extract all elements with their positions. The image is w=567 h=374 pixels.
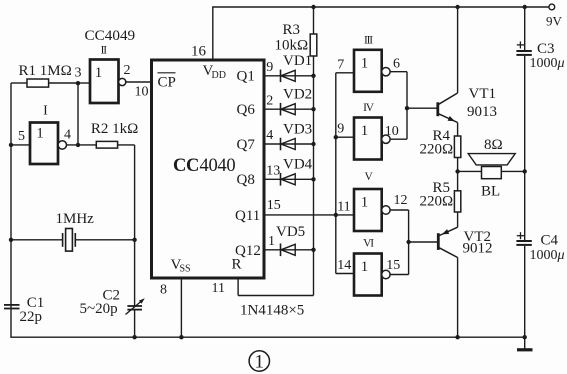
node gate IV input junction bbox=[334, 135, 338, 139]
svg-text:CC: CC bbox=[173, 156, 199, 176]
inverter gate II bbox=[90, 60, 119, 104]
svg-text:2: 2 bbox=[124, 63, 131, 78]
wire R3 top bbox=[313, 7, 315, 34]
svg-text:BL: BL bbox=[481, 184, 500, 200]
wire right rail mid bbox=[524, 56, 526, 240]
svg-text:Q6: Q6 bbox=[237, 102, 256, 118]
svg-text:4040: 4040 bbox=[200, 156, 236, 176]
capacitor C1 top plate bbox=[4, 304, 20, 306]
crystal Y1 body bbox=[66, 229, 73, 252]
svg-text:11: 11 bbox=[337, 199, 350, 214]
wire diode bus bbox=[313, 56, 315, 296]
svg-text:R3: R3 bbox=[283, 22, 301, 38]
inverter gate VI bbox=[354, 254, 382, 296]
svg-text:11: 11 bbox=[212, 281, 225, 296]
svg-text:4: 4 bbox=[64, 128, 71, 143]
wire VSS pin 8 bbox=[180, 278, 182, 337]
svg-text:1N4148×5: 1N4148×5 bbox=[240, 303, 304, 319]
wire R1 right to node 3 bbox=[49, 82, 78, 84]
node 4 bbox=[76, 143, 80, 147]
node VD3 bus junction bbox=[311, 142, 315, 146]
diode VD3 cathode bar bbox=[280, 138, 282, 151]
svg-text:VI: VI bbox=[363, 237, 374, 249]
wire Q12 output row bbox=[264, 249, 314, 251]
wire Q6 output row bbox=[264, 108, 314, 110]
svg-text:5: 5 bbox=[18, 129, 25, 144]
diode VD2 triangle bbox=[281, 104, 295, 115]
node 3 bbox=[76, 81, 80, 85]
wire gate VI output bbox=[390, 274, 409, 276]
wire VT1 base bbox=[407, 107, 438, 109]
diode VD4 triangle bbox=[281, 174, 295, 185]
svg-text:12: 12 bbox=[394, 193, 408, 208]
wire R2 right bbox=[118, 144, 135, 146]
inverter gate III bbox=[354, 50, 382, 92]
svg-text:VD5: VD5 bbox=[276, 224, 305, 240]
resistor R2 bbox=[96, 141, 117, 148]
svg-text:9012: 9012 bbox=[463, 241, 493, 257]
node right rail bottom bbox=[523, 335, 527, 339]
wire VT2 base bbox=[409, 241, 439, 243]
node R4 R5 speaker junction bbox=[455, 169, 459, 173]
wire right rail bottom bbox=[524, 246, 526, 337]
wire gate I output to R2 bbox=[67, 144, 97, 146]
svg-text:9V: 9V bbox=[546, 14, 563, 29]
svg-text:Q11: Q11 bbox=[235, 208, 260, 224]
svg-text:4: 4 bbox=[266, 128, 273, 143]
node gate I input on left rail bbox=[9, 143, 13, 147]
svg-text:5~20p: 5~20p bbox=[80, 301, 118, 317]
node junction top rail / C3 bbox=[523, 5, 527, 9]
transistor VT2 collector bbox=[438, 247, 457, 257]
svg-text:Q8: Q8 bbox=[237, 172, 255, 188]
capacitor C4 top plate bbox=[516, 240, 531, 242]
wire gate IV output bbox=[390, 138, 407, 140]
wire left rail bbox=[10, 83, 12, 337]
svg-text:C3: C3 bbox=[537, 41, 555, 57]
wire Q7 output row bbox=[264, 143, 314, 145]
node junction top rail / R3 bus bbox=[311, 5, 315, 9]
wire ground stub bbox=[524, 337, 526, 350]
svg-text:Q12: Q12 bbox=[235, 243, 261, 259]
capacitor C3 top plate bbox=[516, 50, 531, 52]
bubble gate III output bbox=[382, 68, 390, 76]
resistor R1 bbox=[27, 79, 49, 87]
svg-text:9013: 9013 bbox=[467, 104, 497, 120]
svg-text:VD4: VD4 bbox=[283, 157, 313, 173]
node Q11 gate bus junction bbox=[334, 213, 338, 217]
bubble gate IV output bbox=[382, 135, 390, 143]
wire gate I input bbox=[11, 144, 30, 146]
wire gate III input bbox=[336, 72, 354, 74]
svg-text:1: 1 bbox=[255, 352, 265, 373]
wire Q11 output row bbox=[264, 214, 354, 216]
svg-text:1: 1 bbox=[268, 234, 275, 249]
svg-text:16: 16 bbox=[191, 44, 207, 60]
resistor R5 bbox=[454, 191, 460, 212]
svg-text:1: 1 bbox=[36, 125, 44, 141]
capacitor C2 arrow bbox=[126, 300, 144, 315]
svg-text:1: 1 bbox=[361, 195, 369, 211]
svg-text:Q1: Q1 bbox=[237, 69, 255, 85]
wire R4 bottom bbox=[457, 158, 459, 172]
node gates III-IV output junction bbox=[405, 106, 409, 110]
bubble gate V output bbox=[382, 206, 390, 214]
resistor R4 bbox=[454, 136, 460, 158]
wire gate IV input bbox=[336, 136, 354, 138]
diode VD5 triangle bbox=[281, 244, 295, 255]
svg-text:R1 1MΩ: R1 1MΩ bbox=[19, 63, 72, 79]
node gates V-VI output junction bbox=[406, 240, 410, 244]
wire R5 top bbox=[457, 171, 459, 190]
node C2 bottom rail bbox=[132, 335, 136, 339]
svg-text:DD: DD bbox=[212, 70, 226, 81]
svg-text:7: 7 bbox=[337, 57, 344, 72]
node VSS rail bbox=[179, 335, 183, 339]
bubble gate VI output bbox=[382, 270, 390, 278]
svg-text:μ: μ bbox=[557, 56, 565, 71]
wire R5 bottom bbox=[457, 212, 459, 227]
node VD5 bus junction bbox=[311, 248, 315, 252]
svg-text:220Ω: 220Ω bbox=[420, 142, 454, 158]
wire R1 left bbox=[11, 82, 27, 84]
IC U1 CC4040 body bbox=[152, 60, 265, 278]
wire VT1 collector to rail bbox=[457, 7, 459, 93]
node speaker right rail bbox=[523, 169, 527, 173]
svg-text:VT1: VT1 bbox=[469, 86, 497, 102]
capacitor C1 bottom plate bbox=[4, 308, 20, 310]
wire pin16 vertical from VDD rail to IC bbox=[212, 6, 214, 60]
transistor VT1 emitter bbox=[438, 113, 458, 122]
figure number 1 circle bbox=[249, 351, 269, 371]
node VD1 bus junction bbox=[311, 74, 315, 78]
node VD2 bus junction bbox=[311, 107, 315, 111]
diode VD2 cathode bar bbox=[280, 103, 282, 116]
wire gate III output bbox=[390, 71, 407, 73]
svg-text:3: 3 bbox=[75, 66, 82, 81]
wire gate II output to CP bbox=[126, 81, 152, 83]
wire gate V output bbox=[390, 209, 409, 211]
wire C2 bottom bbox=[134, 310, 136, 338]
speaker BL driver bbox=[482, 167, 502, 179]
node VD4 bus junction bbox=[311, 177, 315, 181]
svg-text:VD2: VD2 bbox=[283, 87, 312, 103]
wire bottom ground rail bbox=[10, 336, 524, 338]
transistor VT2 emitter bbox=[438, 227, 457, 236]
svg-text:VD1: VD1 bbox=[283, 53, 312, 69]
wire R pin down bbox=[237, 278, 239, 296]
capacitor C2 top plate bbox=[127, 305, 142, 307]
capacitor C2 bottom plate bbox=[127, 309, 142, 311]
diode VD5 cathode bar bbox=[280, 244, 282, 257]
svg-text:1: 1 bbox=[361, 259, 369, 275]
svg-text:CP: CP bbox=[158, 74, 176, 90]
bubble gate II output bbox=[119, 78, 126, 85]
transistor VT1 collector bbox=[438, 93, 458, 105]
svg-text:III: III bbox=[364, 35, 373, 47]
wire VT2 collector to rail bbox=[457, 258, 459, 338]
svg-text:6: 6 bbox=[393, 56, 400, 71]
wire right rail top bbox=[524, 7, 526, 50]
svg-text:1MHz: 1MHz bbox=[56, 211, 95, 227]
bubble gate I output bbox=[58, 141, 66, 149]
svg-text:1000: 1000 bbox=[530, 248, 558, 263]
svg-text:1: 1 bbox=[361, 55, 369, 71]
ground bbox=[517, 348, 533, 351]
svg-text:15: 15 bbox=[267, 198, 281, 213]
svg-text:R2 1kΩ: R2 1kΩ bbox=[91, 121, 138, 137]
label C4 plus bbox=[517, 235, 524, 237]
svg-text:8Ω: 8Ω bbox=[484, 137, 503, 153]
svg-text:μ: μ bbox=[557, 248, 565, 263]
transistor VT1 base bar bbox=[436, 102, 439, 116]
terminal 9V bbox=[549, 4, 555, 10]
node crystal left rail bbox=[9, 238, 13, 242]
capacitor C3 bottom plate bbox=[516, 54, 531, 56]
svg-text:1: 1 bbox=[361, 123, 369, 139]
svg-text:CC4049: CC4049 bbox=[85, 27, 136, 44]
diode VD4 cathode bar bbox=[280, 173, 282, 186]
svg-text:I: I bbox=[43, 104, 48, 119]
node junction top rail / VT1 collector bbox=[455, 5, 459, 9]
svg-text:VD3: VD3 bbox=[283, 121, 312, 137]
svg-text:C4: C4 bbox=[541, 232, 559, 248]
svg-text:9: 9 bbox=[337, 122, 344, 137]
wire Q8 output row bbox=[264, 178, 314, 180]
svg-text:220Ω: 220Ω bbox=[420, 194, 454, 210]
svg-text:10: 10 bbox=[385, 124, 399, 139]
diode VD1 cathode bar bbox=[280, 70, 282, 83]
inverter gate IV bbox=[354, 118, 382, 160]
svg-text:2: 2 bbox=[266, 93, 273, 108]
transistor VT2 base bar bbox=[437, 233, 440, 250]
wire node3 to node4 vertical bbox=[77, 83, 79, 145]
svg-text:1: 1 bbox=[95, 65, 103, 81]
wire gate II input bbox=[78, 82, 90, 84]
wire gate input bus bbox=[335, 73, 337, 274]
svg-text:22p: 22p bbox=[20, 309, 43, 325]
wire crystal right bbox=[75, 239, 134, 241]
wire VT1 emitter to R4 bbox=[457, 123, 459, 137]
diode VD3 triangle bbox=[281, 139, 295, 150]
svg-text:9: 9 bbox=[266, 60, 273, 75]
resistor R3 bbox=[310, 34, 317, 56]
node crystal right bbox=[132, 238, 136, 242]
inverter gate V bbox=[354, 189, 382, 231]
diode VD1 triangle bbox=[281, 70, 295, 81]
inverter gate I bbox=[30, 123, 58, 165]
wire speaker row bbox=[458, 170, 525, 172]
svg-text:10: 10 bbox=[135, 84, 149, 99]
svg-text:15: 15 bbox=[386, 258, 400, 273]
label C3 plus bbox=[517, 44, 524, 46]
svg-text:14: 14 bbox=[337, 258, 351, 273]
node VT2 collector rail bbox=[455, 335, 459, 339]
svg-text:10kΩ: 10kΩ bbox=[275, 38, 309, 54]
svg-text:1000: 1000 bbox=[530, 56, 558, 71]
svg-text:Q7: Q7 bbox=[237, 137, 256, 153]
svg-text:13: 13 bbox=[266, 164, 280, 179]
wire Q1 output row bbox=[264, 75, 314, 77]
capacitor C4 bottom plate bbox=[516, 244, 531, 246]
wire R pin horizontal bbox=[238, 295, 313, 297]
crystal Y1 right plate bbox=[74, 233, 76, 247]
svg-text:SS: SS bbox=[180, 264, 191, 275]
wire top VDD rail bbox=[213, 6, 549, 8]
speaker BL horn bbox=[468, 154, 515, 165]
wire crystal left bbox=[11, 239, 63, 241]
crystal Y1 left plate bbox=[62, 233, 64, 247]
svg-text:8: 8 bbox=[160, 282, 167, 297]
wire gate VI input bbox=[336, 273, 354, 275]
wire R2 to crystal vertical bbox=[134, 145, 136, 306]
